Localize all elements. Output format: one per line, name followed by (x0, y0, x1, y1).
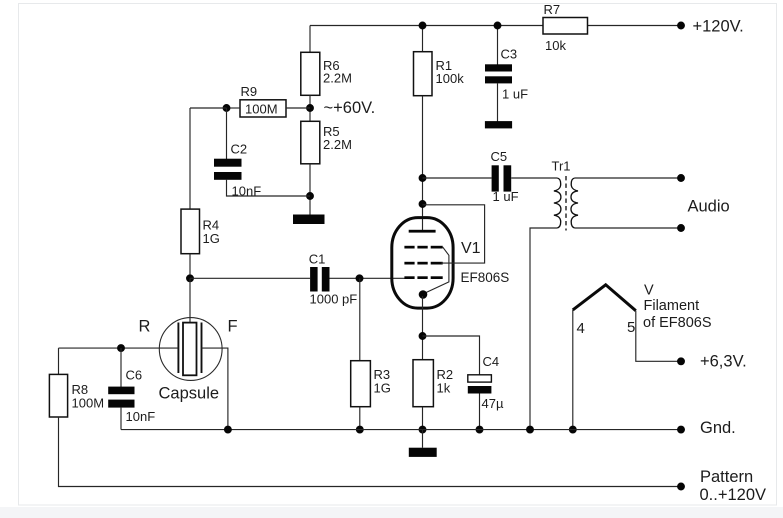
junction dot filament/gnd (569, 426, 577, 434)
wire R2 bottom to gnd rail (422, 407, 424, 430)
wire cathode node to C4 (423, 336, 480, 375)
wire capsule right lead to gnd (202, 348, 228, 430)
wire grid node to C1 (190, 277, 310, 279)
svg-text:V: V (644, 283, 654, 299)
wire R3 drop (359, 278, 361, 360)
wire gnd rail (121, 429, 681, 431)
svg-text:2.2M: 2.2M (323, 71, 352, 86)
svg-text:F: F (228, 318, 238, 336)
grid g2 dashes (404, 262, 442, 265)
wire top rail left (node +120V rail) (310, 25, 543, 27)
wire R8 top lead (58, 348, 60, 374)
resistor R1 (414, 52, 433, 96)
resistor R5 (301, 121, 320, 164)
svg-text:47µ: 47µ (482, 396, 504, 411)
wire R8 bottom to pattern line (59, 417, 682, 487)
grid g3 dashes (404, 246, 442, 249)
svg-text:100k: 100k (436, 71, 465, 86)
svg-text:1k: 1k (437, 381, 451, 396)
svg-text:1G: 1G (374, 381, 391, 396)
svg-text:2.2M: 2.2M (323, 137, 352, 152)
junction dot tube top node (419, 200, 427, 208)
svg-text:1G: 1G (203, 231, 220, 246)
resistor R3 (351, 361, 371, 407)
svg-text:C4: C4 (483, 354, 500, 369)
wire C5 left lead (423, 177, 492, 179)
resistor R7 (543, 18, 588, 35)
capacitor C6 (108, 387, 134, 408)
svg-text:Audio: Audio (688, 198, 730, 216)
junction dot cathode node (419, 332, 427, 340)
terminal dot +6,3V (677, 357, 685, 365)
svg-text:V1: V1 (461, 240, 481, 257)
op tube V1 envelope (392, 218, 453, 309)
wire Tr1 primary bottom lead (530, 228, 557, 430)
svg-text:Filament: Filament (644, 298, 700, 314)
wire cathode lead (422, 296, 424, 360)
wire C2 bottom to R5 ground node (227, 180, 311, 196)
capacitor C3 (485, 64, 512, 83)
wire rail to C3 (497, 26, 499, 65)
wire R9 left lead (227, 107, 241, 109)
wire R9 right lead (286, 107, 310, 109)
svg-text:C2: C2 (231, 142, 248, 157)
wire R6 to R5 (309, 95, 311, 121)
svg-text:5: 5 (627, 319, 635, 336)
svg-text:10k: 10k (545, 38, 566, 53)
wire R5 bottom to ground (309, 164, 311, 215)
capsule front plate line (201, 323, 203, 374)
junction dot C4/gnd (476, 426, 484, 434)
wire capsule top lead (189, 278, 191, 322)
svg-text:Capsule: Capsule (159, 385, 220, 403)
junction dot C6 node (117, 344, 125, 352)
svg-text:4: 4 (577, 320, 585, 337)
svg-text:1 uF: 1 uF (502, 87, 528, 102)
svg-text:+6,3V.: +6,3V. (700, 353, 747, 371)
ground bar under C3 (485, 121, 512, 128)
wire C6 top lead (120, 348, 122, 387)
wire top rail right of R7 (588, 25, 682, 27)
terminal dot Pattern (677, 483, 685, 491)
svg-text:C5: C5 (491, 149, 508, 164)
svg-text:R9: R9 (241, 84, 258, 99)
node ~+60V junction dot (306, 104, 314, 112)
resistor R8 (49, 374, 67, 417)
wire filament pin4 to gnd (572, 310, 574, 430)
svg-text:C1: C1 (309, 252, 326, 267)
svg-text:1000 pF: 1000 pF (310, 292, 358, 307)
resistor R4 (181, 209, 200, 254)
wire node to left corner (190, 107, 227, 109)
wire Tr1 secondary top to Audio (575, 177, 681, 179)
grid g1 dashes (404, 276, 442, 279)
capsule rear plate line (177, 323, 179, 374)
capacitor C5 (492, 165, 512, 191)
wire C6 bottom to gnd rail (120, 408, 122, 430)
junction dot R5/C2 node (306, 192, 314, 200)
svg-text:R: R (139, 318, 151, 336)
resistor R9 (240, 100, 286, 117)
capsule diaphragm rect (183, 323, 197, 376)
junction dot rail/R1 (419, 22, 427, 30)
capacitor C2 (214, 159, 242, 180)
resistor R2 (413, 360, 433, 407)
wire ground stem (422, 430, 424, 448)
junction dot R2/gnd (419, 426, 427, 434)
wire screen grid loop (423, 205, 485, 263)
svg-text:Tr1: Tr1 (552, 159, 571, 174)
junction dot Tr1/gnd (526, 426, 534, 434)
svg-text:100M: 100M (245, 102, 278, 117)
svg-text:+120V.: +120V. (693, 18, 744, 36)
wire C5 right lead to Tr1 (511, 177, 557, 179)
terminal dot +120V (677, 22, 685, 30)
wire Tr1 secondary bottom to Audio (575, 227, 681, 229)
anode plate bar V1 (409, 230, 436, 233)
svg-text:1 uF: 1 uF (493, 189, 519, 204)
wire C1 to tube grid (330, 277, 406, 279)
junction dot capsule F/gnd (224, 426, 232, 434)
resistor R6 (301, 52, 320, 95)
svg-text:Pattern: Pattern (700, 468, 753, 486)
capacitor C1 (310, 267, 329, 292)
svg-text:R7: R7 (544, 2, 561, 17)
junction dot C5 branch (419, 174, 427, 182)
wire C4 bottom to gnd rail (479, 394, 481, 430)
wire R4 bottom to grid node (189, 254, 191, 279)
filament V symbol (573, 285, 636, 311)
svg-text:of EF806S: of EF806S (643, 315, 712, 331)
svg-text:C3: C3 (501, 47, 518, 62)
terminal dot Audio top (677, 174, 685, 182)
ground bar under R2 (409, 448, 437, 457)
capsule body circle (159, 318, 222, 381)
svg-text:100M: 100M (72, 396, 105, 411)
cathode dot V1 (419, 290, 428, 299)
wire g3 to cathode internal (425, 247, 449, 293)
junction dot grid/R3 node (356, 274, 364, 282)
transformer Tr1 (554, 176, 578, 231)
ground bar under R5 (293, 215, 325, 225)
wire rail to R6 (309, 26, 311, 53)
wire rail to R1 (422, 26, 424, 53)
svg-text:~+60V.: ~+60V. (324, 99, 376, 117)
wire R3 bottom to gnd rail (359, 407, 361, 430)
wire R1 bottom to tube plate node (422, 96, 424, 231)
capacitor C4 (468, 375, 492, 394)
junction dot R3/gnd (356, 426, 364, 434)
junction dot rail/C3 (494, 22, 502, 30)
junction dot R9/C2 node (223, 104, 231, 112)
svg-text:0..+120V: 0..+120V (700, 486, 767, 504)
wire filament pin5 to +6,3V (636, 311, 681, 362)
terminal dot Audio bottom (677, 224, 685, 232)
svg-text:C6: C6 (126, 368, 143, 383)
svg-text:Gnd.: Gnd. (700, 419, 736, 437)
junction dot grid node left (186, 274, 194, 282)
wire down to R4 (189, 108, 191, 210)
terminal dot Gnd (677, 426, 685, 434)
wire C3 bottom (497, 83, 499, 121)
wire C2 top lead (226, 108, 228, 159)
wire capsule left lead (59, 347, 179, 349)
svg-text:EF806S: EF806S (461, 270, 510, 285)
svg-text:10nF: 10nF (126, 409, 156, 424)
